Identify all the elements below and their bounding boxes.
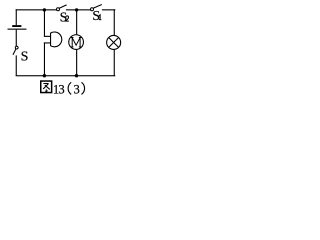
motor M circle (69, 35, 84, 50)
caption character tu (figure) (41, 81, 52, 93)
wire left middle (battery to switch S) (16, 30, 17, 47)
junction dot bottom-right node (75, 74, 78, 77)
switch S2 pivot circle (57, 8, 60, 11)
motor letter M (71, 38, 82, 48)
battery negative plate (short thick) (12, 25, 21, 27)
wire motor branch upper (76, 9, 77, 35)
lamp circle (107, 35, 121, 49)
wire left upper (corner to battery) (16, 9, 17, 25)
wire motor branch lower (76, 49, 77, 76)
junction dot top-left node (43, 8, 46, 11)
junction dot bottom-left node (43, 74, 46, 77)
wire right lower (lamp to corner) (114, 49, 115, 76)
svg-text:3: 3 (58, 82, 64, 96)
wire bell branch upper (44, 9, 45, 36)
bell bottom lead (44, 42, 51, 43)
caption ) (82, 82, 85, 94)
battery positive plate (long thin) (8, 29, 27, 30)
wire top-middle segment (66, 9, 91, 10)
bell dome arc (51, 32, 62, 47)
bell top lead (44, 36, 51, 37)
wire left lower (switch S to corner) (16, 55, 17, 76)
lamp cross stroke 2 (109, 38, 119, 48)
wire top-left segment (16, 9, 57, 10)
switch S pivot circle (15, 46, 18, 49)
svg-text:3: 3 (74, 82, 80, 96)
wire right upper (corner to lamp) (114, 9, 115, 35)
switch S2 blade (60, 5, 67, 8)
switch S blade (13, 49, 16, 55)
wire top-right segment (102, 9, 115, 10)
junction dot top-right node (75, 8, 78, 11)
wire bottom segment (16, 75, 116, 76)
switch S1 blade (93, 5, 101, 9)
caption ( (68, 82, 71, 94)
lamp cross stroke 1 (109, 38, 119, 48)
svg-text:S: S (21, 50, 29, 65)
switch S1 pivot circle (91, 8, 94, 11)
wire bell branch lower (44, 42, 45, 75)
bell flat edge (50, 33, 51, 46)
